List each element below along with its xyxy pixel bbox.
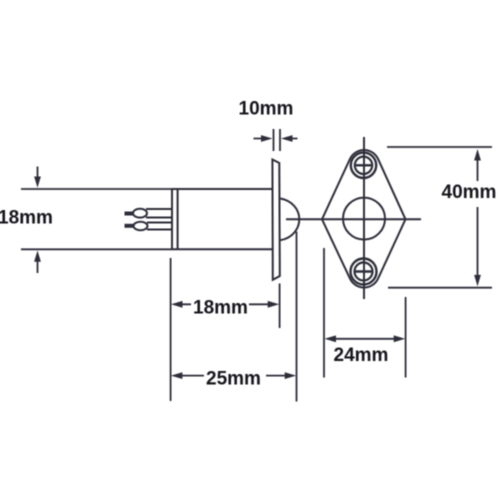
svg-text:10mm: 10mm xyxy=(239,99,294,120)
svg-text:24mm: 24mm xyxy=(334,345,389,366)
svg-text:18mm: 18mm xyxy=(193,298,248,319)
svg-text:40mm: 40mm xyxy=(442,182,497,203)
svg-text:18mm: 18mm xyxy=(0,208,53,229)
svg-text:25mm: 25mm xyxy=(206,369,261,390)
